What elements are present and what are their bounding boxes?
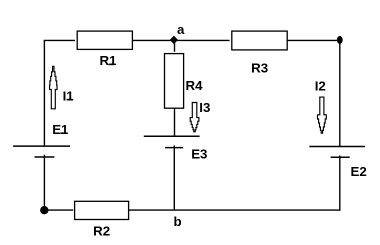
svg-text:R3: R3 [251, 60, 268, 75]
current arrow I2 (down) [318, 97, 327, 133]
wire E3 to bottom rail (node b) [173, 145, 175, 210]
wire bottom rail right segment [129, 209, 341, 211]
svg-text:R4: R4 [186, 78, 204, 93]
svg-text:I3: I3 [199, 100, 210, 115]
wire right vertical (dot down to E2) [339, 40, 341, 146]
wire bottom rail left segment [44, 209, 73, 211]
junction dot top right [337, 36, 343, 44]
node a junction dot [171, 36, 178, 43]
battery E2 [309, 147, 366, 179]
resistor R1 [77, 31, 132, 68]
wire E1 to bottom rail [43, 155, 45, 211]
svg-text:R2: R2 [93, 224, 110, 239]
battery E3 [144, 136, 208, 161]
wire top rail left segment [44, 39, 75, 41]
battery E1 [13, 122, 70, 157]
svg-text:b: b [174, 214, 182, 229]
svg-text:E3: E3 [191, 147, 207, 162]
svg-text:R1: R1 [100, 53, 118, 68]
current arrow I1 (up) [50, 66, 58, 109]
wire top rail middle segment [132, 39, 229, 41]
wire E2 to bottom rail [339, 155, 341, 210]
svg-text:a: a [177, 22, 185, 37]
svg-text:I2: I2 [315, 79, 326, 94]
wire left vertical (top-left corner down to E1) [43, 40, 45, 146]
junction dot bottom left [40, 206, 48, 214]
resistor R2 [75, 201, 129, 238]
svg-text:E1: E1 [52, 122, 69, 137]
wire top rail right segment [287, 39, 340, 41]
wire R4 to E3 [174, 108, 176, 136]
resistor R3 [232, 31, 287, 75]
svg-text:E2: E2 [351, 164, 367, 179]
svg-text:I1: I1 [63, 88, 75, 103]
resistor R4 [165, 54, 204, 109]
current arrow I3 (down) [190, 103, 199, 132]
wire node a to R4 [174, 40, 176, 51]
